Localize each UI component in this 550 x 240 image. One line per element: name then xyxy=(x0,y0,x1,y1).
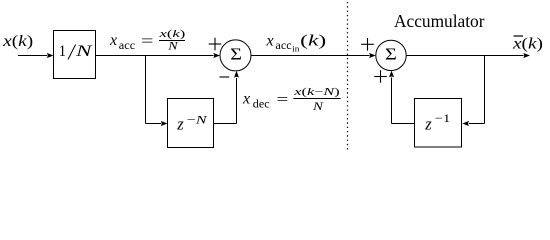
svg-text:Σ: Σ xyxy=(230,45,242,64)
svg-text:in: in xyxy=(292,43,300,53)
svg-text:x(k): x(k) xyxy=(2,33,33,50)
svg-text:x(k): x(k) xyxy=(512,35,543,52)
svg-text:acc: acc xyxy=(119,40,135,52)
svg-text:x(k−N): x(k−N) xyxy=(293,87,341,98)
svg-text:Σ: Σ xyxy=(385,45,397,64)
svg-text:−1: −1 xyxy=(435,111,451,125)
svg-text:(k): (k) xyxy=(300,33,326,50)
svg-text:−N: −N xyxy=(187,113,208,127)
svg-text:acc: acc xyxy=(275,40,291,52)
svg-text:z: z xyxy=(424,115,432,134)
svg-text:N: N xyxy=(312,101,325,113)
svg-text:Accumulator: Accumulator xyxy=(394,11,485,31)
svg-text:=: = xyxy=(277,92,289,109)
svg-text:dec: dec xyxy=(253,99,270,111)
svg-text:x(k): x(k) xyxy=(158,29,186,40)
svg-text:N: N xyxy=(75,43,94,60)
svg-text:1: 1 xyxy=(59,43,66,60)
svg-text:=: = xyxy=(141,33,154,50)
svg-text:x: x xyxy=(109,32,117,49)
svg-text:z: z xyxy=(176,115,184,134)
svg-text:N: N xyxy=(167,41,179,53)
svg-text:x: x xyxy=(242,91,250,108)
svg-text:x: x xyxy=(266,33,274,50)
